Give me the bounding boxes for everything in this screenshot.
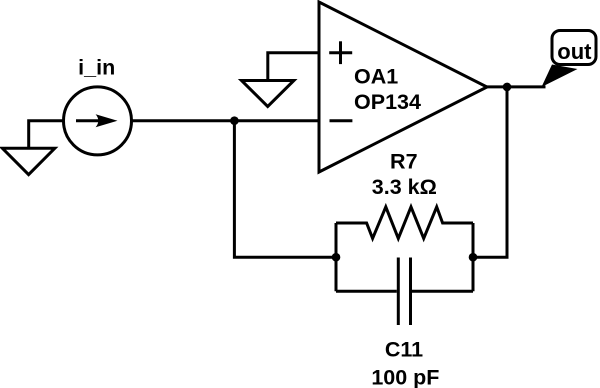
wire [29,121,64,148]
wire [335,223,338,291]
wire [268,53,319,80]
label R7 3.3 kOhm [372,149,437,199]
svg-text:OP134: OP134 [354,90,421,114]
current source I1 [64,87,132,155]
svg-text:OA1: OA1 [354,64,398,88]
ground GND1 [2,148,54,174]
label C11 100 pF [371,337,439,388]
ground GND2 [242,81,294,107]
node junction [469,253,478,262]
svg-text:out: out [557,39,592,64]
wire [472,223,475,291]
capacitor C11 [336,258,473,326]
wire [234,121,336,258]
svg-text:i_in: i_in [78,55,115,79]
wire [486,85,546,88]
op-amp OA1 [319,2,487,172]
wire [473,87,507,257]
svg-text:3.3 kΩ: 3.3 kΩ [372,175,437,199]
wire [131,119,319,122]
svg-text:R7: R7 [390,149,418,173]
node junction [332,253,341,262]
node junction [230,116,239,125]
out flag pointer [542,65,578,88]
resistor R7 [336,207,473,239]
label OA1 OP134 [354,64,421,114]
node junction [503,83,512,92]
out flag box [552,31,596,65]
svg-text:C11: C11 [385,337,423,361]
svg-text:100 pF: 100 pF [371,366,439,388]
